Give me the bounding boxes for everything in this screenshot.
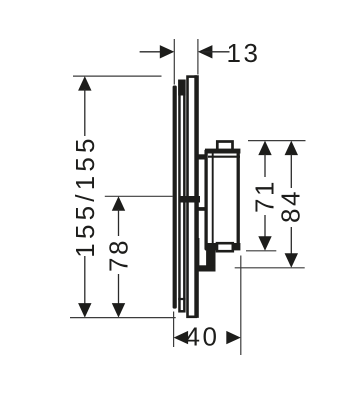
dim 71 line upper segment — [264, 154, 266, 177]
body top inner edge — [208, 156, 240, 158]
dim 71 bottom arrowhead — [258, 236, 271, 251]
rear plate right border thick back edge — [194, 75, 198, 318]
dim 13 left arrowhead — [160, 45, 175, 58]
dim 84 top arrowhead — [285, 141, 298, 156]
stem column — [206, 250, 215, 272]
handle bridge on plate — [180, 196, 201, 203]
wall plate rear base rectangle — [188, 77, 196, 317]
dim 84 line upper segment — [290, 154, 292, 188]
dim 155/155 line lower segment — [84, 256, 86, 305]
dim 71 line lower segment — [264, 215, 266, 237]
dim 13 left tail line — [140, 51, 170, 53]
svg-text:40: 40 — [186, 321, 220, 351]
dim 155/155 top arrowhead — [78, 76, 91, 91]
top knob — [217, 142, 232, 152]
svg-text:78: 78 — [104, 238, 134, 272]
wall plate front cover bar — [173, 86, 177, 309]
body top flange band — [205, 149, 240, 154]
top neck between plate and body — [195, 154, 208, 159]
extension line E10 bottom of dim 84 — [235, 267, 305, 269]
dim 40 right arrowhead — [226, 331, 241, 344]
stem left wall — [196, 238, 200, 272]
extension line E9 bottom of dim 71 — [246, 250, 276, 252]
dim 40 left arrowhead — [174, 331, 189, 344]
stem bottom foot — [198, 265, 216, 271]
wall plate middle slab — [179, 81, 184, 311]
dim 84 bottom arrowhead — [285, 253, 298, 268]
dim 78 bottom arrowhead — [112, 303, 125, 318]
extension line E2 right of dim 13 — [197, 39, 199, 75]
dim 155/155 line upper segment — [84, 89, 86, 136]
extension line E5 bottom shared 155 and 78 — [70, 317, 176, 319]
extension line E3 top of dim 155 — [73, 75, 162, 77]
extension line E7 right of dim 40 — [240, 256, 242, 356]
body internal cartridge line — [212, 154, 214, 244]
middle slab solid top cap — [178, 80, 185, 96]
svg-text:13: 13 — [227, 38, 261, 68]
dim 78 top arrowhead — [112, 196, 125, 211]
svg-text:155/155: 155/155 — [70, 134, 100, 257]
dim 78 line upper segment — [118, 209, 120, 236]
dim 155/155 bottom arrowhead — [78, 303, 91, 318]
bottom nub — [217, 243, 233, 251]
dim 13 right arrowhead — [198, 45, 213, 58]
extension line E4 top of dim 78 — [105, 195, 173, 197]
extension line E6 left of dim 40 — [173, 312, 175, 348]
dim 13 right tail line — [202, 51, 230, 53]
svg-text:84: 84 — [276, 189, 306, 223]
valve body housing — [206, 152, 238, 249]
middle slab parting line bottom — [178, 298, 185, 300]
extension line E1 left of dim 13 — [173, 39, 175, 85]
body bottom flange band — [205, 243, 240, 250]
bridge to body left wall — [197, 207, 206, 211]
dim 71 top arrowhead — [258, 141, 271, 156]
extension line E8 top shared 71 and 84 — [248, 140, 306, 142]
dim 84 line lower segment — [290, 227, 292, 254]
dim 78 line lower segment — [118, 274, 120, 305]
